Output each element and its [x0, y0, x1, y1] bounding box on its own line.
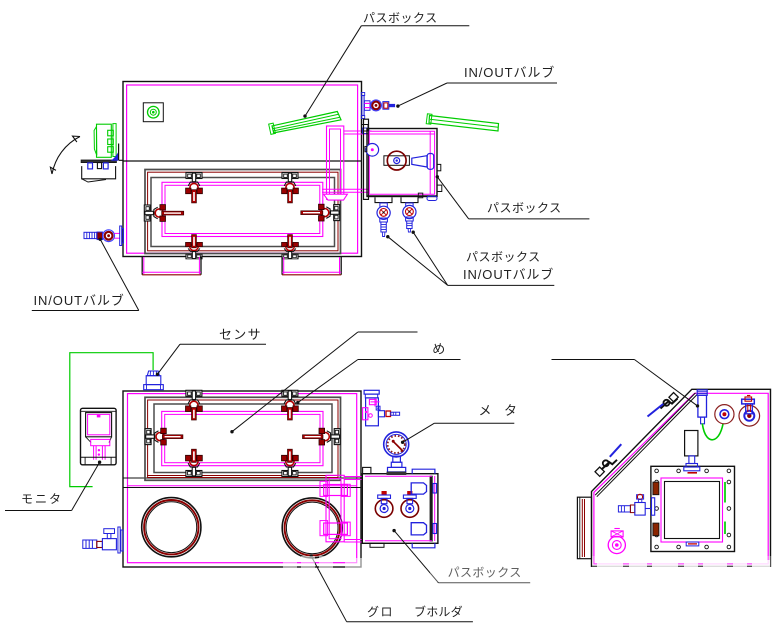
- clamp top-left: [186, 173, 203, 203]
- magenta duct (front): [320, 475, 362, 542]
- magenta inner border: [127, 85, 358, 253]
- pass box (front): [362, 467, 438, 547]
- hinges (blue): [411, 483, 426, 494]
- pass box valve 2 (below): [401, 197, 418, 232]
- pass box body: [367, 129, 437, 197]
- svg-text:パスボックス: パスボックス: [466, 250, 541, 264]
- mounting flange: [364, 119, 369, 199]
- leader: side sensor (unlabeled): [552, 359, 635, 361]
- right leg: [282, 257, 341, 275]
- hinge stack under valve: [362, 125, 369, 132]
- svg-text:め: め: [432, 342, 445, 357]
- pentagon outline: [592, 389, 771, 566]
- svg-text:IN/OUTバルブ: IN/OUTバルブ: [34, 293, 125, 308]
- green lid (pass box): [429, 116, 499, 132]
- slant clamp lower: [595, 444, 621, 476]
- dark ring port: [387, 151, 406, 170]
- clamp bottom-left: [186, 235, 203, 259]
- filter cylinder on top: [684, 431, 700, 473]
- window magenta seal: [162, 182, 323, 236]
- svg-text:センサ: センサ: [219, 327, 262, 342]
- divider line: [123, 160, 362, 162]
- slant clamp upper: [648, 393, 679, 417]
- side valve at window left: [618, 494, 654, 515]
- section divider: [123, 477, 361, 479]
- left IN/OUT valve: [84, 226, 124, 246]
- sensor (front, on top): [144, 371, 164, 390]
- magenta tabs: [686, 542, 699, 546]
- left leg: [142, 257, 201, 275]
- slanted window panel lines: [595, 393, 695, 495]
- clamp top-right: [282, 173, 299, 203]
- side window (pass box square): [651, 466, 735, 551]
- port circle 2 with fitting: [739, 406, 760, 427]
- top-right IN/OUT valve: [361, 93, 395, 119]
- front clamps: [186, 390, 203, 420]
- svg-text:IN/OUTバルブ: IN/OUTバルブ: [463, 267, 554, 282]
- sensor (side): [697, 390, 707, 424]
- left hinge tabs: [653, 482, 659, 495]
- main box: [123, 391, 361, 567]
- door swing arrow: [52, 137, 80, 175]
- drain valve magenta: [608, 529, 625, 554]
- main box outline: [123, 82, 362, 257]
- glove port left: [142, 498, 201, 557]
- green lid (left, on box top): [272, 112, 341, 133]
- bottom band: [367, 195, 437, 197]
- clamp bottom-right: [282, 235, 299, 259]
- clamp right: [301, 204, 340, 221]
- pass box valve 1 (below): [375, 197, 392, 236]
- green square indicator: [143, 103, 163, 122]
- magenta border: [128, 394, 357, 563]
- green coiled cable: [702, 418, 723, 440]
- svg-text:IN/OUTバルブ: IN/OUTバルブ: [464, 65, 555, 80]
- clamp left: [144, 205, 183, 222]
- window frame (front): [145, 397, 341, 480]
- left door flap (green): [94, 124, 116, 158]
- left duct flange: [577, 497, 591, 559]
- sight port circle: [366, 144, 379, 157]
- svg-text:タ: タ: [504, 403, 517, 418]
- svg-text:ブホルダ: ブホルダ: [414, 604, 463, 619]
- blue handle cone: [412, 156, 427, 167]
- interior band: [384, 156, 410, 166]
- magenta duct (plan right): [322, 126, 372, 200]
- green gasket marks: [724, 482, 726, 503]
- bolts: [655, 469, 731, 549]
- right wall tabs: [437, 164, 441, 170]
- green sensor cable: [70, 353, 153, 487]
- glove port right: [282, 498, 342, 558]
- tray: [82, 166, 116, 179]
- leader: window (unlabeled): [358, 331, 418, 333]
- hinge shelf: [81, 160, 116, 163]
- window frame (plan): [145, 170, 341, 254]
- port circle 1: [715, 405, 734, 424]
- svg-text:モニタ: モニタ: [21, 492, 63, 506]
- interior valves: [375, 491, 393, 517]
- blue corner bracket: [111, 153, 119, 161]
- monitor: [81, 408, 117, 465]
- svg-text:メ: メ: [479, 403, 492, 418]
- svg-text:グロ: グロ: [367, 605, 394, 619]
- svg-text:パスボックス: パスボックス: [487, 201, 562, 215]
- gauge meter: [384, 432, 409, 475]
- magenta liner: [369, 130, 435, 132]
- top valve assembly (front, above pass box): [363, 390, 400, 426]
- left valve (front): [83, 527, 123, 553]
- svg-text:パスボックス: パスボックス: [363, 11, 438, 25]
